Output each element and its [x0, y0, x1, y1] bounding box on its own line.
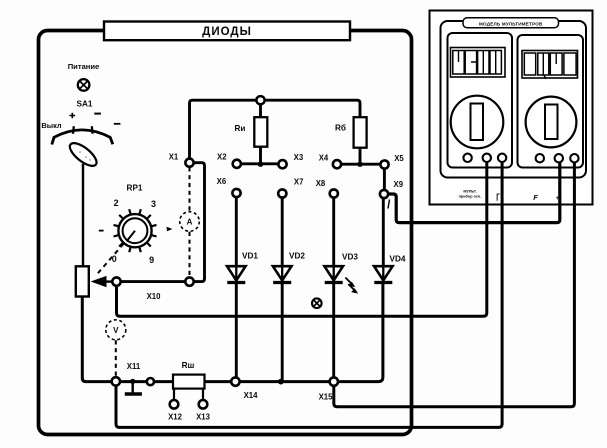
junction dot ground [130, 379, 135, 384]
svg-text:3: 3 [151, 199, 156, 209]
svg-text:МУЛЬТ.: МУЛЬТ. [463, 190, 476, 194]
wire X11 to left meter right jack [116, 162, 502, 428]
multimeter outer case [430, 11, 593, 205]
terminal X14 [231, 377, 239, 385]
diode VD2 [273, 252, 306, 283]
ammeter A1 [180, 212, 200, 232]
wire X1 bypass to X10 row [121, 163, 205, 282]
svg-text:SA1: SA1 [77, 100, 93, 109]
svg-text:X9: X9 [394, 180, 404, 189]
svg-text:VD3: VD3 [342, 253, 358, 262]
title box ДИОДЫ [104, 22, 350, 41]
ground stem [131, 381, 133, 392]
wire rheostat bottom + bottom bus + VD4 rise [82, 283, 383, 382]
junction dot VD2 bottom [278, 379, 284, 385]
svg-text:0: 0 [112, 254, 117, 264]
svg-text:X15: X15 [319, 393, 334, 402]
terminal X12 [170, 400, 179, 409]
diode VD1 [227, 252, 258, 283]
wire VD2 column [281, 198, 284, 382]
terminal X5 [380, 160, 388, 168]
wire X15 to right meter right jack [334, 162, 575, 407]
diode VD4 [374, 255, 406, 283]
terminal X2 [233, 160, 241, 168]
svg-text:X3: X3 [294, 153, 304, 162]
svg-text:VD4: VD4 [390, 255, 406, 264]
left meter display [451, 48, 506, 78]
wire X2-X3 [241, 162, 279, 165]
svg-text:A: A [187, 218, 193, 227]
terminal X1 [185, 159, 193, 167]
ground bar [125, 392, 142, 395]
power lamp Питание [68, 62, 100, 91]
indicator lamp near VD3 [312, 298, 322, 308]
svg-text:ДИОДЫ: ДИОДЫ [202, 26, 252, 38]
terminal X8 [330, 189, 338, 197]
svg-text:X13: X13 [196, 413, 211, 422]
svg-text:Выкл: Выкл [41, 121, 61, 130]
svg-text:X2: X2 [217, 153, 227, 162]
svg-text:МОДЕЛЬ МУЛЬТИМЕТРОВ: МОДЕЛЬ МУЛЬТИМЕТРОВ [479, 21, 543, 26]
left meter dial [451, 96, 504, 149]
wire top bus X1 to Rб [190, 100, 361, 158]
voltmeter V1 [106, 320, 126, 340]
svg-text:X4: X4 [319, 154, 329, 163]
artifact near X9 [388, 200, 390, 209]
terminal X4 [333, 160, 341, 168]
svg-text:RP1: RP1 [127, 184, 143, 193]
right meter module [518, 35, 584, 168]
terminal X7 [278, 189, 286, 197]
svg-text:F: F [533, 193, 538, 202]
LED arrows of VD3 [345, 278, 358, 294]
svg-text:X5: X5 [394, 154, 404, 163]
meter jack terminals [463, 154, 578, 163]
right meter dial [526, 97, 577, 148]
multimeter bottom markings [459, 190, 563, 203]
wire SA1 column [82, 164, 84, 266]
svg-text:X6: X6 [217, 177, 227, 186]
wire X12 X13 stems [174, 389, 203, 401]
multimeter inner face [441, 21, 587, 178]
resistor Rш [173, 361, 205, 389]
switch SA1 [41, 100, 120, 170]
svg-text:V: V [113, 326, 119, 335]
junction dot Rб [357, 162, 362, 167]
terminal X9 [380, 190, 388, 198]
svg-text:Ꞅ: Ꞅ [496, 192, 500, 201]
diode VD3 (LED) [324, 253, 358, 283]
panel outline [39, 31, 412, 435]
rheostat RP1 element [76, 266, 89, 296]
multimeter nameplate [463, 18, 559, 28]
wire voltmeter dashed link [115, 340, 117, 376]
svg-text:VD1: VD1 [242, 252, 258, 261]
wire Rб bottom [359, 148, 362, 165]
terminal X6 [232, 189, 240, 197]
wire X4-X5 [341, 163, 380, 166]
svg-text:X10: X10 [147, 292, 162, 301]
terminal X10 [112, 277, 120, 285]
svg-text:9: 9 [149, 255, 154, 265]
wire X9 hook to right meter COM [388, 162, 559, 223]
RP1 mechanical link dashed [97, 244, 124, 275]
svg-text:прибор осн.: прибор осн. [459, 195, 482, 199]
rheostat wiper arrow [91, 276, 113, 287]
wire VD4 column [382, 198, 385, 283]
terminal X11 [112, 377, 120, 385]
wire VD1 column [235, 197, 238, 377]
svg-text:X7: X7 [294, 178, 304, 187]
left meter module [448, 33, 513, 168]
wire Rи column [259, 104, 262, 164]
right meter display [522, 51, 578, 80]
node top bus [256, 96, 264, 104]
potentiometer knob RP1 [99, 184, 173, 265]
svg-text:X8: X8 [316, 179, 326, 188]
svg-text:VD2: VD2 [289, 252, 305, 261]
svg-text:X1: X1 [169, 153, 179, 162]
resistor Rи [235, 117, 268, 147]
wire X5-X9 [383, 169, 386, 190]
svg-text:Rш: Rш [182, 361, 195, 370]
junction dot Rи [258, 162, 263, 167]
wire X10 to left meter COM [117, 162, 487, 317]
terminal X13 [199, 400, 208, 409]
terminal X3 [278, 160, 286, 168]
svg-text:Питание: Питание [68, 62, 100, 71]
wire VD3 column [332, 198, 335, 378]
svg-text:Rб: Rб [335, 123, 346, 133]
svg-text:Rи: Rи [235, 124, 246, 133]
svg-text:X11: X11 [127, 362, 141, 371]
node ammeter bottom [185, 277, 193, 285]
svg-text:X12: X12 [168, 413, 183, 422]
resistor Rб [335, 117, 367, 148]
node left of Rш [147, 378, 154, 385]
svg-text:X14: X14 [244, 391, 259, 400]
wire ammeter dashed links [189, 167, 191, 277]
svg-text:2: 2 [114, 198, 119, 208]
terminal X15 [330, 377, 338, 385]
